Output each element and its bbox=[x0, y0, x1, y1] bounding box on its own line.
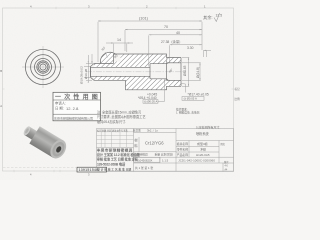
revision table columns bbox=[100, 129, 102, 148]
fold mark dashed line bbox=[3, 167, 77, 169]
right face bbox=[180, 58, 182, 87]
svg-text:产品名称: 产品名称 bbox=[177, 153, 188, 157]
svg-text:13915154B: 13915154B bbox=[79, 168, 100, 172]
svg-text:零件名称: 零件名称 bbox=[177, 148, 188, 152]
callout dia14 bbox=[138, 93, 157, 100]
body upper wall hatch bbox=[114, 54, 182, 67]
right vertical dim 24.8 bbox=[199, 63, 201, 81]
svg-text:被具Ø14加实际尺寸.: 被具Ø14加实际尺寸. bbox=[97, 119, 126, 124]
iso main cylinder bbox=[29, 126, 69, 161]
svg-text:3.30: 3.30 bbox=[187, 46, 194, 50]
counterbore 17.4 bbox=[166, 63, 168, 81]
iso view bbox=[22, 125, 69, 161]
bore lines bbox=[91, 66, 151, 68]
svg-text:林文胜: 林文胜 bbox=[133, 129, 141, 133]
svg-text:比例: 比例 bbox=[235, 97, 241, 101]
counterbore 14 bbox=[149, 64, 151, 79]
svg-text:3h2. /. 1o: 3h2. /. 1o bbox=[147, 129, 158, 133]
svg-text:料: 料 bbox=[134, 143, 138, 148]
frame reference ticks bbox=[0, 4, 240, 176]
left vertical dim bbox=[87, 64, 89, 81]
front view centerline horizontal bbox=[22, 66, 64, 68]
svg-text:设计 王某某 12.2 标准化 检验批: 设计 王某某 12.2 标准化 检验批 bbox=[97, 152, 141, 157]
upper-left shaft wall hatch bbox=[94, 64, 114, 68]
svg-text:审核 批准 工艺 日期 批准 定标: 审核 批准 工艺 日期 批准 定标 bbox=[97, 157, 139, 162]
approval area dark text bbox=[97, 148, 141, 172]
svg-text:B: B bbox=[0, 69, 2, 73]
front view circle 4 bbox=[37, 61, 49, 73]
body upper wall hatch right bbox=[150, 54, 167, 64]
svg-text:◎ Ø0.05 A: ◎ Ø0.05 A bbox=[144, 100, 157, 104]
svg-text:喷粉系统: 喷粉系统 bbox=[196, 131, 210, 136]
callout dia17.40 bbox=[182, 84, 186, 93]
front view circle 3 bbox=[35, 59, 52, 76]
notes bbox=[97, 107, 221, 129]
dim 14 bbox=[114, 42, 127, 44]
svg-text:Ø30.63: Ø30.63 bbox=[183, 65, 187, 76]
svg-text:(101): (101) bbox=[139, 17, 149, 21]
front view bbox=[22, 46, 64, 88]
step chamfer bbox=[167, 62, 169, 65]
svg-text:其余:: 其余: bbox=[203, 14, 213, 21]
iso small boss bbox=[22, 125, 38, 140]
front view circle 5 bbox=[38, 62, 48, 72]
svg-text:◎ Ø0.05 A: ◎ Ø0.05 A bbox=[184, 97, 197, 101]
front view center hole bbox=[40, 64, 46, 70]
svg-text:5.应检测所有尺寸.: 5.应检测所有尺寸. bbox=[196, 125, 221, 130]
svg-text:模具名称: 模具名称 bbox=[177, 142, 188, 146]
svg-text:Ø16.98: Ø16.98 bbox=[84, 69, 88, 79]
svg-text:12. 2.8.: 12. 2.8. bbox=[66, 106, 79, 111]
sheet border bbox=[3, 8, 234, 171]
dim 40 bbox=[149, 34, 202, 36]
dim 3.30 bbox=[204, 49, 212, 51]
shoulder dome hatch bbox=[100, 52, 116, 63]
svg-text:材: 材 bbox=[134, 138, 138, 143]
front view circle 2 bbox=[31, 55, 56, 80]
dim (101) bbox=[98, 20, 202, 22]
section view bbox=[86, 52, 186, 90]
svg-text:尺寸要求, 此图属Ą木图布垂直工艺: 尺寸要求, 此图属Ą木图布垂直工艺 bbox=[97, 114, 146, 119]
svg-text:设 计 审 核 工 艺 批 准 日期: 设 计 审 核 工 艺 批 准 日期 bbox=[97, 168, 131, 172]
body lower wall hatch bbox=[126, 76, 182, 90]
svg-text:JCD1-042-1000C-0200060: JCD1-042-1000C-0200060 bbox=[178, 159, 215, 163]
svg-text:14: 14 bbox=[117, 38, 121, 42]
roughness note top right bbox=[203, 13, 222, 22]
svg-text:H120-0A5: H120-0A5 bbox=[196, 153, 210, 157]
title block bbox=[97, 129, 234, 172]
svg-text:日 期:: 日 期: bbox=[55, 106, 64, 111]
svg-text:Ø(24.8): Ø(24.8) bbox=[196, 67, 200, 78]
right section rows bbox=[176, 140, 234, 142]
lower-left shaft wall hatch bbox=[94, 76, 126, 80]
bottom stamp code box bbox=[77, 167, 107, 172]
dim 70 bbox=[125, 29, 202, 31]
body outline top bbox=[114, 54, 182, 64]
svg-text:1:1.5: 1:1.5 bbox=[162, 158, 169, 162]
svg-text:注: 全金属长度15mm, 应避免刃: 注: 全金属长度15mm, 应避免刃 bbox=[97, 110, 141, 115]
svg-text:申请人:: 申请人: bbox=[55, 101, 66, 106]
svg-text:东莞市研琪精密机械有限公司: 东莞市研琪精密机械有限公司 bbox=[54, 116, 93, 121]
shoulder fillet arc bbox=[100, 52, 116, 63]
svg-text:共 1 张 第 1 张: 共 1 张 第 1 张 bbox=[135, 166, 153, 170]
right vertical dim 30.63 bbox=[188, 58, 190, 87]
svg-text:1. 粗糙度值, 去毛刺.: 1. 粗糙度值, 去毛刺. bbox=[176, 110, 200, 114]
dimensions bbox=[79, 17, 211, 104]
svg-text:70: 70 bbox=[164, 25, 168, 29]
svg-text:丰吴市研琪精密模具: 丰吴市研琪精密模具 bbox=[97, 148, 133, 153]
section centerline bbox=[86, 71, 186, 73]
dim 27.38 bbox=[170, 44, 202, 46]
body outline bottom bbox=[126, 80, 182, 90]
stamp box bbox=[53, 92, 101, 121]
svg-text:40: 40 bbox=[176, 31, 180, 35]
svg-text:成型3模: 成型3模 bbox=[197, 141, 208, 146]
right section upper hatch bbox=[167, 58, 182, 63]
svg-text:27.38（余量）: 27.38（余量） bbox=[161, 39, 182, 44]
svg-text:A: A bbox=[0, 104, 2, 108]
front view centerline vertical bbox=[42, 46, 44, 88]
svg-text:一次性用图: 一次性用图 bbox=[55, 93, 101, 101]
middle section rows bbox=[134, 151, 177, 153]
shaft outline bbox=[91, 64, 95, 81]
front view outer circle bbox=[25, 49, 60, 84]
svg-text:139-5022-268B 电话: 139-5022-268B 电话 bbox=[97, 162, 126, 167]
svg-text:重量 比例 阶段: 重量 比例 阶段 bbox=[155, 153, 174, 157]
revision table rows bbox=[97, 131, 134, 133]
svg-text:Ø19.05±0.02: Ø19.05±0.02 bbox=[79, 66, 83, 84]
svg-text:标记: 标记 bbox=[235, 87, 241, 91]
svg-text:Cr12/YG6: Cr12/YG6 bbox=[145, 141, 164, 146]
svg-text:冲模: 冲模 bbox=[200, 147, 206, 152]
